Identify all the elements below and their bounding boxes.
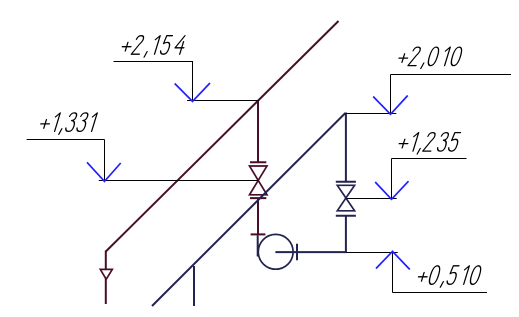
elevation mark +1,235 shelf — [347, 198, 397, 200]
elevation mark +2,010 leader underline — [391, 74, 512, 76]
elevation mark +2,154 leader vertical — [192, 62, 194, 101]
elevation label +2,010 — [396, 47, 463, 68]
pipe: return diagonal (navy) — [152, 113, 345, 306]
pipe: valve V2 down to pump outlet line (navy) — [345, 216, 347, 253]
pipe: vertical to valve V2 (navy) — [345, 113, 347, 182]
pump outlet flange — [296, 244, 298, 261]
pipe: supply riser diagonal (dark red) — [106, 21, 339, 252]
pipe: stub off return diagonal (navy) — [193, 266, 195, 306]
elevation mark +0,510 leader underline — [393, 292, 488, 294]
elevation mark +2,010 arrow (blue) — [373, 96, 408, 115]
elevation mark +0,510 leader vertical — [392, 253, 394, 293]
valve V2 body (bowtie) — [337, 185, 354, 211]
pipe: pump outlet horizontal (navy) — [275, 251, 347, 253]
pump P1 (circle) — [258, 234, 293, 269]
elevation mark +1,235 leader vertical — [391, 159, 393, 199]
valve V1 top flange — [250, 161, 266, 163]
elevation mark +1,331 leader vertical — [104, 140, 106, 181]
valve V1 body (bowtie) — [250, 166, 268, 195]
pipe: branch vertical to valve V1 (dark red) — [257, 101, 259, 163]
elevation mark +1,331 arrow (blue) — [87, 162, 121, 181]
elevation label +2,154 — [119, 36, 187, 57]
elevation mark +0,510 shelf — [347, 252, 398, 254]
valve V2 bottom flange — [336, 215, 356, 217]
elevation label +1,331 — [38, 113, 98, 134]
valve V1 bottom flange — [250, 197, 266, 199]
valve V2 top flange — [336, 181, 356, 183]
elevation mark +2,010 leader vertical — [390, 75, 392, 114]
elevation label +0,510 — [415, 266, 482, 287]
pump inlet flange — [251, 233, 266, 235]
pipe: pump inlet stub (navy) — [257, 236, 259, 257]
elevation mark +2,154 arrow (blue) — [175, 83, 210, 101]
elevation mark +2,154 shelf — [187, 100, 259, 102]
elevation label +1,235 — [396, 133, 461, 154]
pipe: supply drop vertical (dark red) — [105, 251, 107, 305]
drain funnel symbol on supply drop — [100, 269, 112, 279]
elevation mark +0,510 arrow (blue, pointing up) — [376, 251, 410, 269]
elevation mark +1,235 arrow (blue) — [375, 181, 408, 199]
pipe: valve V1 to pump inlet (dark red) — [257, 198, 259, 235]
elevation mark +2,010 shelf — [345, 113, 396, 115]
elevation mark +1,331 leader underline — [27, 139, 105, 141]
elevation mark +1,235 leader underline — [392, 158, 467, 160]
elevation mark +1,331 shelf — [99, 180, 258, 182]
elevation mark +2,154 leader underline — [114, 61, 194, 63]
